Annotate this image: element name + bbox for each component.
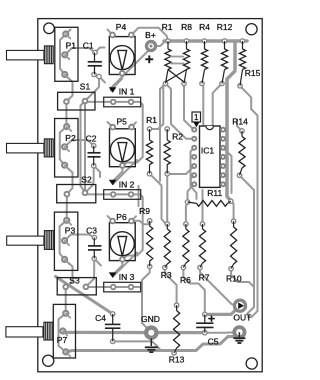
wire P5 pad stub R bbox=[131, 122, 136, 127]
svg-text:R1: R1 bbox=[146, 115, 157, 125]
wire S3 to P7 tip bbox=[65, 287, 67, 314]
wire R1 to R1(2) link bbox=[151, 84, 166, 130]
jack P2 bbox=[7, 119, 79, 178]
wire P5 bottom to IN2 node bbox=[113, 166, 123, 184]
wire stub left of R9 bbox=[138, 186, 140, 206]
wire C3 bottom stub bbox=[94, 259, 101, 266]
connector IN 3 bbox=[104, 282, 141, 292]
wire IN3 feed bbox=[87, 287, 151, 333]
svg-text:1: 1 bbox=[194, 113, 199, 122]
wire R2 to R3 bbox=[166, 174, 168, 224]
node IN 2 marker bbox=[109, 179, 135, 189]
wire R11 to R10 link bbox=[231, 201, 234, 221]
node IN 1 marker bbox=[109, 87, 135, 97]
svg-text:R7: R7 bbox=[199, 273, 210, 283]
svg-text:R9: R9 bbox=[139, 206, 150, 216]
svg-text:P3: P3 bbox=[65, 226, 76, 236]
wire R4 drop bbox=[202, 84, 203, 126]
wire S1 to C1 ground bbox=[85, 77, 99, 102]
wire IC pin 14 stub bbox=[223, 129, 227, 131]
resistor R2 bbox=[164, 126, 183, 177]
crossed leads R1/R8 bbox=[166, 57, 187, 83]
wire IC pin 10 stub bbox=[223, 156, 227, 158]
svg-text:P5: P5 bbox=[116, 117, 127, 127]
svg-text:IN 1: IN 1 bbox=[119, 87, 135, 97]
svg-text:C5: C5 bbox=[208, 337, 219, 347]
op-amp IC1 bbox=[191, 126, 226, 187]
svg-text:R12: R12 bbox=[217, 22, 233, 32]
jack P7 bbox=[6, 304, 76, 358]
wire S2 to P3 tip bbox=[66, 194, 68, 220]
resistor R10 bbox=[226, 218, 242, 283]
svg-text:R2: R2 bbox=[172, 132, 183, 142]
wire IC pin 6 drop bbox=[191, 175, 194, 187]
resistor R14 bbox=[232, 117, 248, 179]
wire bottom bus (y350) bbox=[66, 335, 237, 352]
resistor R3 bbox=[161, 221, 172, 280]
svg-text:C4: C4 bbox=[95, 313, 106, 323]
wire P4 wiper to bus bbox=[131, 28, 168, 41]
resistor R9 bbox=[139, 206, 153, 270]
wire R14 top stub bbox=[237, 120, 242, 131]
svg-text:S3: S3 bbox=[69, 276, 80, 286]
svg-text:GND: GND bbox=[141, 314, 160, 324]
svg-text:R14: R14 bbox=[232, 117, 248, 127]
board outline bbox=[38, 19, 262, 372]
capacitor C5 bbox=[196, 312, 219, 347]
svg-text:R10: R10 bbox=[226, 273, 242, 283]
svg-text:R4: R4 bbox=[199, 22, 210, 32]
svg-text:S1: S1 bbox=[80, 82, 91, 92]
wire R1(2) to R3 (diagonal) bbox=[150, 174, 168, 224]
wire R3 to R13 bbox=[165, 268, 177, 306]
wire P2 sleeve to S2 bbox=[65, 165, 73, 194]
pad GND bbox=[144, 325, 159, 340]
node IN 3 marker bbox=[109, 272, 135, 282]
wire S3 to C4 (thick diagonal) bbox=[56, 277, 113, 314]
svg-text:R8: R8 bbox=[181, 22, 192, 32]
wire IC pin 5 to R2 bbox=[167, 166, 194, 174]
wire P6 wiper to R9 bbox=[131, 221, 150, 225]
switch S3 bbox=[57, 276, 96, 295]
wire P4 pad stub bbox=[108, 30, 113, 36]
wire R8 to IC pin 1 bbox=[184, 84, 194, 130]
wire P6 corner to IN3 node bbox=[113, 253, 137, 277]
ground symbol (GND) bbox=[145, 339, 158, 353]
wire P5 corner to IN2 node bbox=[113, 160, 137, 184]
svg-text:R11: R11 bbox=[207, 188, 222, 198]
wire S3 to C3 ground bbox=[86, 259, 94, 287]
wire ground bus (y332) bbox=[63, 331, 205, 334]
wire B+ pad to bus bbox=[151, 42, 165, 47]
label GND bbox=[141, 314, 160, 324]
svg-text:C3: C3 bbox=[86, 226, 97, 236]
wire OUT to C5 (thick) bbox=[205, 306, 240, 315]
svg-text:R3: R3 bbox=[161, 270, 172, 280]
wire IC pin 12 stub bbox=[223, 138, 227, 140]
wire IC pin 7 to R11 bbox=[188, 184, 195, 202]
wire R12 drop bbox=[213, 84, 222, 126]
switch S1 bbox=[58, 82, 95, 111]
svg-text:R6: R6 bbox=[180, 275, 191, 285]
resistor R4 bbox=[199, 22, 210, 86]
wire IC right pin drop bbox=[223, 148, 232, 193]
wire R6 to R11 bbox=[186, 202, 188, 224]
svg-text:B+: B+ bbox=[145, 30, 156, 40]
resistor R13 bbox=[169, 302, 185, 364]
wire IN1 feed bbox=[87, 102, 143, 166]
wire to IC pin 2 bbox=[166, 84, 195, 139]
wire B+ to IN1 node (diagonal) bbox=[111, 51, 149, 91]
wire mid vertical x160 bbox=[160, 84, 166, 182]
resistor R7 bbox=[197, 221, 210, 282]
pad output ground bbox=[232, 325, 246, 339]
label B+ bbox=[145, 30, 156, 63]
wire right rail 2 bbox=[248, 109, 258, 317]
wire C2 bottom stub bbox=[94, 166, 100, 177]
pad B+ bbox=[145, 40, 157, 52]
wire R7 to OUT bbox=[200, 268, 236, 306]
svg-text:P6: P6 bbox=[116, 212, 127, 222]
wire B+ bus (top) bbox=[164, 39, 247, 43]
resistor R6 bbox=[180, 221, 191, 285]
wire P3 sleeve to S3 bbox=[65, 259, 73, 286]
ground symbol (OUT) bbox=[233, 332, 245, 343]
wire C1 via stub bbox=[99, 77, 105, 83]
svg-text:P2: P2 bbox=[65, 133, 76, 143]
wire R9 to GND chain bbox=[142, 267, 150, 290]
jack P3 bbox=[7, 212, 78, 270]
wire IN2 feed bbox=[87, 194, 143, 259]
wire P4 bottom to IN1 node bbox=[113, 74, 122, 92]
wire P5 pad stub L bbox=[108, 122, 113, 127]
wire C5 to output ground bbox=[205, 331, 233, 333]
wire R6 to C5 bbox=[183, 268, 204, 315]
wire P1 tip stub bbox=[66, 30, 71, 35]
wire IC pin 3 drop bbox=[191, 148, 197, 199]
wire R7 to IC bbox=[202, 190, 204, 224]
svg-text:OUT: OUT bbox=[233, 313, 251, 323]
wire P6 pad stub L bbox=[108, 216, 113, 221]
svg-text:IN 3: IN 3 bbox=[119, 272, 135, 282]
jack P1 bbox=[7, 27, 79, 81]
resistor R8 bbox=[181, 22, 192, 86]
wire bus drop right of IC1 bbox=[227, 41, 235, 201]
wire P6 pad stub R bbox=[131, 216, 136, 221]
mounting hole bottom-left bbox=[43, 355, 54, 366]
capacitor C4 bbox=[95, 311, 120, 344]
capacitor C1 bbox=[83, 41, 102, 78]
svg-text:R15: R15 bbox=[245, 68, 261, 78]
svg-text:S2: S2 bbox=[81, 175, 92, 185]
svg-text:C2: C2 bbox=[86, 134, 97, 144]
mounting hole top-left bbox=[44, 23, 55, 34]
svg-text:P7: P7 bbox=[57, 335, 68, 345]
potentiometer P4 bbox=[109, 22, 135, 77]
wire S1 to S2 (vertical) bbox=[84, 101, 86, 193]
mounting hole top-right bbox=[246, 24, 257, 35]
wire P3 ring to C3 bbox=[65, 235, 95, 241]
svg-text:IN 2: IN 2 bbox=[119, 179, 135, 189]
capacitor C3 bbox=[86, 226, 101, 262]
pin 1 marker bbox=[192, 112, 201, 127]
wire R15 to pad bbox=[240, 86, 251, 109]
connector IN 2 bbox=[104, 190, 141, 200]
resistor R12 bbox=[217, 22, 233, 86]
wire P1 ring to C1 bbox=[65, 48, 95, 55]
wire P6 bottom to IN3 node bbox=[113, 260, 122, 277]
wire S1 to S2 (second vertical) bbox=[81, 101, 86, 191]
wire P2 ring to C2 bbox=[65, 140, 94, 147]
capacitor C2 bbox=[86, 134, 101, 169]
resistor R15 bbox=[237, 38, 260, 89]
resistor R11 bbox=[185, 188, 234, 206]
mounting hole bottom-right bbox=[246, 358, 257, 369]
svg-text:C1: C1 bbox=[83, 41, 94, 51]
wire S1 to P2 tip bbox=[65, 102, 67, 127]
wire C1 top stub bbox=[95, 48, 105, 53]
potentiometer P6 bbox=[109, 212, 135, 263]
wire C4 to bottom bus bbox=[113, 341, 161, 350]
svg-text:R1: R1 bbox=[162, 22, 173, 32]
wire R14 to right rail bbox=[240, 175, 255, 313]
wire R10 bottom link bbox=[231, 269, 254, 287]
connector IN 1 bbox=[104, 97, 141, 107]
label OUT bbox=[233, 313, 251, 323]
wire IC pin 8 stub bbox=[223, 174, 227, 176]
svg-text:R13: R13 bbox=[169, 355, 185, 365]
resistor R1 (top) bbox=[162, 22, 173, 86]
wire S2 to C2 ground bbox=[85, 166, 94, 193]
pad OUT bbox=[233, 299, 247, 313]
svg-text:IC1: IC1 bbox=[201, 146, 215, 156]
via near C1 bbox=[96, 74, 102, 80]
potentiometer P5 bbox=[109, 117, 135, 169]
resistor R1 (second) bbox=[146, 115, 157, 177]
svg-text:P1: P1 bbox=[66, 41, 77, 51]
switch S2 bbox=[57, 175, 96, 203]
svg-text:P4: P4 bbox=[116, 22, 127, 32]
wire P1 sleeve to S1 bbox=[65, 75, 73, 102]
